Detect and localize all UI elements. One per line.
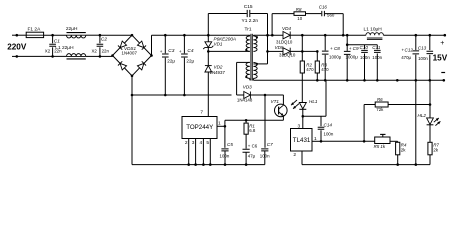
wire pin 2 down — [301, 151, 303, 165]
LED HL1 — [299, 103, 306, 109]
wire C14 to 0V — [325, 80, 327, 116]
capacitor C5 — [221, 149, 228, 151]
capacitor C15 — [247, 10, 250, 17]
wire C7 top — [264, 95, 266, 148]
node output plus terminal — [444, 34, 447, 37]
svg-text:1N4148: 1N4148 — [237, 98, 253, 103]
svg-text:100n: 100n — [260, 153, 270, 158]
svg-text:31DQ10: 31DQ10 — [279, 53, 296, 58]
wire — [86, 34, 100, 36]
bridge rectifier VDS1 1N4007 — [113, 35, 152, 76]
wire control run — [225, 119, 284, 121]
svg-text:HL1: HL1 — [309, 99, 318, 104]
light arrow 3 — [434, 118, 439, 122]
svg-text:C12: C12 — [405, 47, 414, 52]
capacitor C11 — [376, 45, 378, 50]
svg-text:TL431: TL431 — [293, 137, 311, 144]
wire — [268, 50, 284, 52]
svg-text:470μ: 470μ — [401, 55, 411, 60]
node rail A left — [131, 94, 134, 97]
svg-text:C2: C2 — [101, 37, 107, 43]
svg-text:1: 1 — [314, 136, 317, 142]
svg-text:2: 2 — [185, 140, 188, 146]
svg-text:C14: C14 — [324, 122, 333, 127]
svg-text:L1 10μH: L1 10μH — [364, 26, 383, 32]
svg-text:5: 5 — [206, 140, 209, 146]
node VD5 anode branch — [266, 50, 269, 53]
node — [271, 34, 274, 37]
phase dot primary — [245, 49, 247, 51]
node VD1 top — [207, 34, 210, 37]
svg-text:R5 1k: R5 1k — [374, 144, 386, 149]
svg-text:R6: R6 — [377, 97, 383, 102]
capacitor C13 — [429, 35, 431, 50]
svg-text:22μ: 22μ — [186, 59, 194, 64]
svg-text:22μ: 22μ — [167, 59, 175, 64]
inductor L1 bottom winding — [67, 54, 86, 57]
capacitor C6 — [243, 149, 250, 152]
wire — [316, 51, 318, 61]
wire HL2 top — [429, 80, 431, 118]
wire secondary ground rail — [302, 164, 430, 166]
wire — [100, 55, 113, 57]
svg-text:2k: 2k — [433, 148, 438, 153]
diode VD1 P6KE200A (TVS) — [205, 42, 212, 48]
wire bridge minus riser — [131, 76, 133, 165]
wire R6 left — [364, 104, 375, 106]
resistor R8 — [294, 12, 306, 16]
wire VD3 cathode — [250, 94, 283, 96]
wire VT1 collector riser — [282, 95, 284, 105]
wire DC plus rail — [152, 34, 250, 36]
svg-text:C7: C7 — [267, 142, 273, 147]
svg-text:C1: C1 — [54, 39, 60, 45]
node — [342, 34, 345, 37]
LED HL2 — [427, 118, 434, 125]
svg-text:F1 2A: F1 2A — [28, 27, 42, 33]
capacitor C4 — [183, 35, 185, 53]
wire VD5 riser — [301, 35, 303, 51]
wire pin 1 — [217, 125, 225, 127]
node pin1 — [224, 125, 227, 128]
node output minus terminal — [443, 79, 446, 82]
wire — [86, 55, 100, 57]
wire — [100, 34, 132, 36]
svg-text:HL2: HL2 — [418, 113, 427, 118]
IC TOP244Y — [182, 117, 217, 139]
capacitor C1 — [52, 35, 54, 43]
wire — [207, 35, 209, 42]
inductor L1 top winding — [67, 35, 86, 38]
svg-text:100n: 100n — [324, 132, 334, 137]
svg-text:31DQ10: 31DQ10 — [276, 40, 293, 45]
node C3 plus — [164, 34, 167, 37]
capacitor C2 — [99, 35, 101, 43]
wire primary bottom — [208, 50, 250, 52]
svg-text:VT1: VT1 — [271, 99, 280, 104]
wire C14 top — [303, 115, 326, 117]
node C14 branch — [302, 115, 305, 118]
wire sub rail — [347, 44, 377, 46]
svg-text:1N4007: 1N4007 — [122, 51, 138, 56]
wire rail A — [132, 94, 232, 96]
wire drain to pin 7 — [207, 72, 209, 117]
capacitor C10 — [364, 45, 366, 50]
svg-text:Y1 2.2n: Y1 2.2n — [242, 18, 259, 24]
svg-text:6.8: 6.8 — [249, 128, 256, 133]
wire — [390, 140, 398, 142]
node C8 top — [324, 34, 327, 37]
wire bridge plus riser — [151, 35, 153, 55]
svg-text:220V: 220V — [7, 43, 27, 52]
resistor R4 — [396, 142, 400, 155]
node C14 bottom — [320, 140, 323, 143]
node AC input top terminal — [15, 34, 18, 37]
fuse F1 — [26, 32, 43, 37]
capacitor C14 — [320, 116, 322, 126]
wire — [237, 94, 244, 96]
svg-text:VD2: VD2 — [214, 65, 223, 70]
svg-text:VD1: VD1 — [214, 42, 223, 47]
wire — [301, 51, 303, 61]
capacitor C12 — [415, 35, 417, 50]
wire R8 riser — [271, 14, 273, 36]
wire — [17, 55, 67, 57]
wire source pin 2 — [188, 139, 190, 165]
svg-text:100n: 100n — [220, 153, 230, 158]
node C12 top — [415, 34, 418, 37]
wire R8 left — [272, 13, 294, 15]
wire aux bottom stub — [249, 78, 251, 80]
wire source pin 4 — [202, 139, 204, 165]
wire — [245, 134, 247, 148]
capacitor C3 — [164, 35, 166, 53]
wire R3 bottom — [316, 73, 318, 80]
diode VD5 31DQ10 — [283, 48, 290, 55]
svg-text:47μ: 47μ — [248, 153, 256, 158]
svg-text:22n: 22n — [102, 48, 110, 53]
wire VT1 emitter — [282, 116, 284, 121]
wire R7 bottom — [429, 155, 431, 165]
wire source pin 3 — [195, 139, 197, 165]
svg-text:1: 1 — [218, 121, 221, 127]
node AC input bottom terminal — [15, 55, 18, 58]
svg-text:C4: C4 — [187, 48, 193, 54]
resistor R3 — [315, 61, 319, 73]
transformer primary winding — [246, 36, 250, 51]
wire VD5 cathode run — [290, 50, 317, 52]
svg-text:+ C9: + C9 — [349, 46, 359, 51]
node on 0V bus — [396, 79, 399, 82]
node — [316, 50, 319, 53]
resistor R2 — [300, 61, 304, 73]
wire — [383, 34, 444, 36]
svg-text:VD3: VD3 — [243, 85, 252, 90]
inductor L2 10uH — [366, 33, 384, 36]
svg-text:+ C8: + C8 — [330, 46, 340, 51]
svg-text:C15: C15 — [244, 4, 253, 10]
svg-text:C16: C16 — [319, 4, 328, 9]
capacitor C8 — [324, 35, 326, 50]
wire — [267, 35, 269, 64]
svg-text:1000μ: 1000μ — [329, 55, 342, 60]
wire C15 left riser — [207, 14, 209, 36]
bridge diode bottom-right — [137, 61, 146, 70]
node bridge AC top — [131, 34, 134, 37]
transformer core line 1 — [250, 34, 252, 81]
wire — [207, 47, 209, 65]
wire primary ground rail — [132, 164, 265, 166]
svg-text:100n: 100n — [372, 55, 382, 60]
node C1 top junction — [51, 34, 54, 37]
svg-text:1000μ: 1000μ — [346, 55, 359, 60]
svg-text:C13: C13 — [418, 45, 427, 50]
svg-text:C3: C3 — [168, 48, 174, 54]
svg-text:22μH: 22μH — [66, 26, 78, 32]
resistor R7 — [428, 142, 432, 155]
wire pin 1 — [312, 140, 321, 142]
svg-text:4: 4 — [200, 140, 203, 146]
light arrow 1 — [291, 100, 297, 105]
wire HL1 cathode to TL431 — [302, 109, 304, 128]
node C13 top — [429, 34, 432, 37]
node C9 top — [346, 34, 349, 37]
wire C15 riser to secondary top — [267, 14, 269, 36]
wire C16 riser — [342, 14, 344, 36]
wire aux top — [237, 61, 250, 63]
IC TL431 — [291, 129, 313, 152]
wire secondary B top — [253, 63, 267, 65]
wire 0V bus — [302, 79, 444, 81]
transformer secondary winding B — [253, 62, 257, 78]
svg-text:C11: C11 — [372, 45, 381, 50]
wire aux riser — [236, 62, 238, 95]
svg-text:C5: C5 — [227, 142, 233, 147]
node sub rail — [346, 43, 349, 46]
wire — [306, 13, 322, 15]
transformer core line 2 — [251, 34, 253, 81]
wire secondary B bottom stub — [252, 78, 254, 80]
node — [301, 50, 304, 53]
resistor R6 — [375, 102, 388, 107]
node C4 plus — [183, 34, 186, 37]
light arrow 4 — [435, 121, 440, 125]
wire — [44, 34, 67, 36]
svg-text:R8: R8 — [296, 7, 302, 12]
wire C5 top — [224, 126, 226, 148]
node R6 HL2 junction — [429, 103, 432, 106]
bridge diode bottom-left — [118, 61, 127, 70]
wire C7 bottom — [264, 151, 266, 165]
svg-text:C10: C10 — [360, 45, 369, 50]
wire plus bus — [302, 34, 366, 36]
svg-text:L1 22μH: L1 22μH — [55, 45, 74, 51]
bridge diode top-right — [137, 41, 146, 50]
node bridge plus — [150, 54, 153, 57]
phase dot secondary B — [256, 63, 258, 65]
wire R2 to HL1 — [301, 73, 303, 103]
svg-text:10: 10 — [297, 16, 302, 21]
node bridge minus — [131, 75, 134, 78]
wire 0V from transformer — [253, 79, 302, 81]
phase dot aux — [245, 76, 247, 78]
svg-text:3: 3 — [298, 123, 301, 129]
phase dot secondary A — [256, 36, 258, 38]
capacitor C7 — [261, 149, 268, 151]
potentiometer R5 — [375, 137, 390, 144]
diode VD2 1N4937 — [205, 66, 212, 72]
wire source pin 5 — [209, 139, 211, 165]
wire — [245, 120, 247, 123]
svg-text:470: 470 — [306, 67, 314, 72]
svg-text:100n: 100n — [360, 55, 370, 60]
wire ref node — [321, 140, 375, 142]
node — [266, 34, 269, 37]
node C2 top junction — [99, 34, 102, 37]
svg-text:72k: 72k — [376, 107, 384, 112]
svg-text:2k: 2k — [401, 148, 406, 153]
wire — [17, 34, 26, 36]
svg-text:TOP244Y: TOP244Y — [186, 124, 213, 131]
label minus — [441, 72, 445, 74]
svg-text:7: 7 — [200, 110, 203, 116]
svg-text:X2: X2 — [45, 48, 51, 53]
diode VD3 1N4148 — [244, 92, 251, 99]
svg-text:15V: 15V — [433, 54, 448, 63]
opto phototransistor VT1 — [275, 104, 288, 117]
wire — [224, 120, 226, 126]
wire secondary top — [253, 34, 283, 36]
svg-text:VD5: VD5 — [275, 45, 284, 50]
svg-text:+ C6: + C6 — [248, 144, 258, 149]
diode VD4 31DQ10 — [283, 32, 290, 39]
svg-text:+: + — [179, 49, 182, 54]
node bridge AC left — [111, 54, 114, 57]
svg-text:100n: 100n — [418, 56, 428, 61]
light arrow 2 — [293, 104, 299, 109]
bridge diode top-left — [118, 41, 127, 50]
wire — [363, 105, 365, 142]
capacitor C9 — [346, 35, 348, 51]
svg-text:+: + — [160, 49, 163, 54]
svg-text:Tr1: Tr1 — [245, 27, 252, 33]
node R1 top — [245, 119, 248, 122]
svg-text:2: 2 — [293, 152, 296, 158]
transformer secondary winding A — [253, 36, 257, 51]
wire — [429, 125, 431, 143]
svg-text:3: 3 — [192, 140, 195, 146]
transformer winding aux — [246, 62, 250, 78]
wire — [325, 13, 343, 15]
wire — [290, 34, 302, 36]
wire C15 right — [250, 13, 267, 15]
resistor R1 — [244, 123, 248, 134]
capacitor C16 — [322, 11, 325, 16]
svg-text:X2: X2 — [92, 48, 98, 53]
svg-text:1N4937: 1N4937 — [210, 70, 226, 75]
svg-text:VD4: VD4 — [282, 26, 291, 31]
node C7 junction — [264, 94, 267, 97]
svg-text:+: + — [440, 40, 444, 47]
wire C15 left — [208, 13, 247, 15]
wire R6 right — [388, 104, 430, 106]
